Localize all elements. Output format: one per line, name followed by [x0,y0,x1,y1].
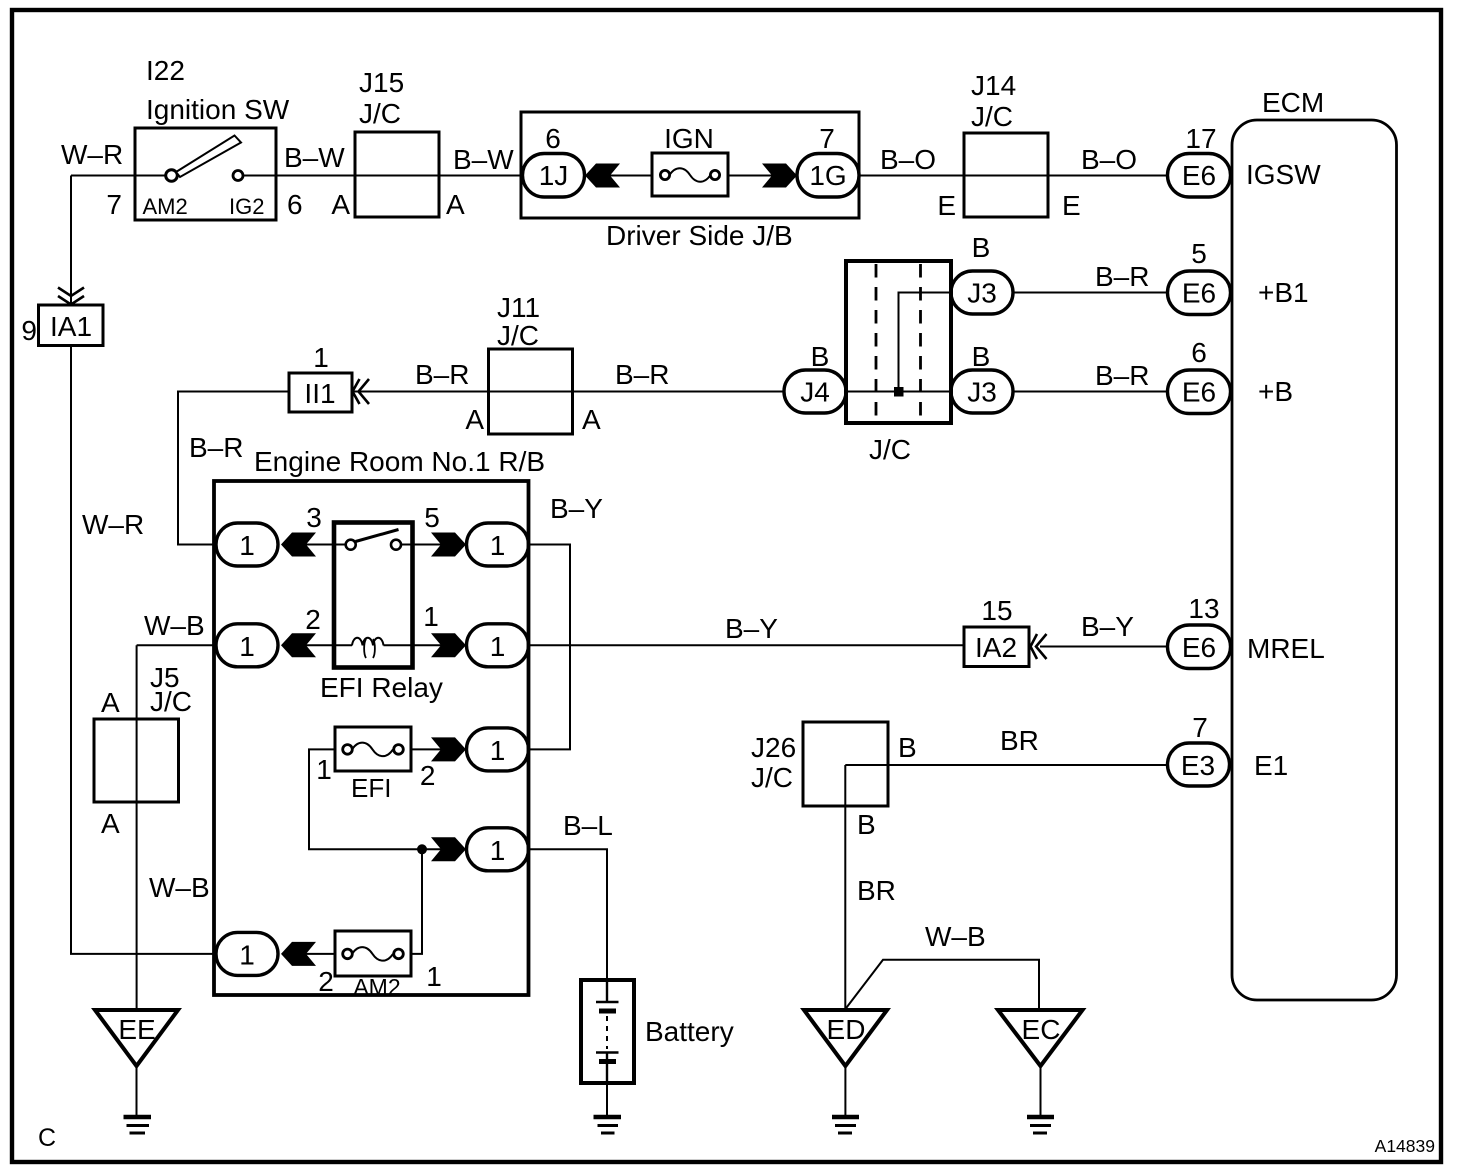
connector J4 oval [784,370,846,413]
junction node dot [417,844,427,854]
chevrons out of IA2 [1031,634,1047,659]
svg-text:W–B: W–B [149,872,210,903]
svg-text:B–Y: B–Y [1081,611,1134,642]
svg-text:IA1: IA1 [50,311,92,342]
connector E6 pin5 [1168,271,1231,315]
svg-text:BR: BR [857,875,896,906]
connector 1 oval (relay row left) [216,523,278,566]
connector E6 pin6 [1168,370,1231,414]
svg-text:6: 6 [545,123,561,154]
svg-text:2: 2 [420,760,436,791]
svg-text:+B: +B [1258,376,1293,407]
svg-text:B–R: B–R [415,359,469,390]
arrow right (pin1) [431,633,466,657]
connector 1 oval (coil row left) [216,624,278,667]
wire B-Y riser joining relay out and EFI fuse out [529,545,571,750]
connector 1J oval [523,154,585,198]
svg-text:E6: E6 [1182,278,1216,309]
wire B-Y IA2 to E6 MREL [1040,646,1168,648]
svg-text:AM2: AM2 [143,194,188,219]
svg-text:B–O: B–O [880,144,936,175]
svg-text:1: 1 [423,601,439,632]
connector E3 pin7 [1168,743,1230,786]
fuse AM2 box [335,931,411,976]
wire W-B from J5 riser to coil row [137,644,216,646]
svg-text:B–R: B–R [1095,360,1149,391]
fuse EFI element [343,745,353,755]
arrow left (AM2 pin2) [281,942,316,966]
arrow right (battery feed) [431,837,466,861]
svg-text:B–Y: B–Y [725,613,778,644]
svg-text:B–O: B–O [1081,144,1137,175]
wire relay to pin5 arrow [400,544,443,546]
svg-text:7: 7 [106,189,122,220]
connector 1 oval (coil row right) [467,624,529,667]
ground (EE) [124,1115,152,1119]
svg-text:7: 7 [1192,712,1208,743]
wire B-L to battery [529,849,608,980]
svg-text:EFI: EFI [351,773,391,803]
ground point ED triangle [804,1010,887,1066]
relay coil [334,638,412,646]
svg-text:J3: J3 [967,278,997,309]
fuse AM2 element [343,949,353,959]
arrow into 1J [585,164,620,188]
svg-text:1: 1 [490,631,506,662]
wire W-R vertical down from ignition row [70,176,72,306]
svg-text:B–R: B–R [615,359,669,390]
arrow left (pin2) [281,633,316,657]
svg-text:A: A [331,189,350,220]
arrow right (pin5) [431,533,466,557]
svg-text:3: 3 [306,502,322,533]
junction connector J5 box [94,719,179,802]
svg-text:J/C: J/C [150,686,192,717]
svg-text:J15: J15 [359,67,404,98]
connector J3 upper oval [951,271,1013,314]
svg-text:1: 1 [490,530,506,561]
chevrons out of II1 [353,379,370,404]
svg-text:6: 6 [287,189,303,220]
svg-text:A14839: A14839 [1375,1136,1435,1156]
svg-text:1: 1 [239,940,255,971]
fuse EFI box [335,727,411,771]
svg-text:1: 1 [490,835,506,866]
svg-text:BR: BR [1000,725,1039,756]
svg-text:J4: J4 [800,377,830,408]
svg-text:2: 2 [305,604,321,635]
svg-text:EE: EE [118,1014,155,1045]
wire to EE ground [136,1009,138,1011]
EFI relay box [334,523,413,668]
junction block J/C box [846,261,951,423]
svg-text:E6: E6 [1182,632,1216,663]
wire B-R J11 to J4 [572,391,784,393]
svg-text:E: E [1062,190,1081,221]
arrow left (pin3) [281,533,316,557]
wire W-R IA1 down to AM2 fuse row [71,346,216,954]
svg-text:E6: E6 [1182,377,1216,408]
svg-text:B–R: B–R [189,432,243,463]
ground (battery) [594,1115,622,1119]
svg-text:E6: E6 [1182,160,1216,191]
ground point EE triangle [95,1010,178,1066]
relay switch bar [356,530,399,542]
svg-text:J/C: J/C [971,101,1013,132]
svg-text:C: C [38,1124,56,1152]
wire B-O J14 to ECM [1048,175,1168,177]
svg-text:B–R: B–R [1095,261,1149,292]
chevrons into IA1 [58,288,84,305]
svg-text:E: E [937,190,956,221]
wire B-R from II1 to corner and down to relay row [178,392,289,545]
wire to IGN fuse [610,175,652,177]
svg-text:EC: EC [1022,1014,1061,1045]
svg-text:1: 1 [426,961,442,992]
ignition switch lever [176,136,241,178]
svg-text:AM2: AM2 [353,974,400,1000]
wire relay to pin1 arrow [412,644,443,646]
svg-text:J/C: J/C [869,434,911,465]
svg-text:IG2: IG2 [229,194,264,219]
svg-text:1J: 1J [539,160,569,191]
arrow right (pin2) [431,737,466,761]
junction connector J15 box [355,175,439,177]
svg-text:B: B [898,732,917,763]
junction connector J11 box [489,391,573,393]
internal wire to upper J3 [899,293,952,392]
svg-text:B: B [972,232,991,263]
Driver Side J/B box [521,112,859,218]
connector 1 oval (AM2 row left) [216,932,278,975]
wire B-R J3 to E6 +B [1013,391,1168,393]
connector 1G oval [797,154,859,198]
svg-text:E3: E3 [1181,750,1215,781]
svg-text:J11: J11 [497,292,540,323]
wire B-W J15 to Driver Side J/B [439,175,523,177]
svg-text:J/C: J/C [359,98,401,129]
wire W-B ED to EC [845,960,1039,1010]
wire BR J26 to E3 [845,764,1167,766]
svg-text:Engine Room No.1 R/B: Engine Room No.1 R/B [254,446,545,477]
svg-text:1: 1 [239,530,255,561]
battery box [581,980,634,1083]
svg-text:2: 2 [318,966,334,997]
svg-text:B: B [811,341,830,372]
ignition switch internal wires [135,175,276,177]
wire arrow to AM2 fuse [306,953,335,955]
wire pin3 to relay [306,544,346,546]
ground (EC) [1027,1115,1054,1119]
svg-text:A: A [101,808,120,839]
arrow into 1G [762,164,797,188]
svg-text:B–W: B–W [284,142,345,173]
wire junction to arrow [422,848,443,850]
wire B-R II1 to J11 [353,391,489,393]
svg-text:13: 13 [1188,593,1219,624]
battery cells [596,980,619,1065]
svg-text:W–R: W–R [61,139,123,170]
svg-text:J26: J26 [751,732,796,763]
svg-text:15: 15 [981,595,1012,626]
svg-text:9: 9 [21,315,37,346]
svg-text:B–W: B–W [453,144,514,175]
svg-text:EFI Relay: EFI Relay [320,672,443,703]
wire B-O 1G to J14 [859,175,964,177]
svg-text:B: B [972,341,991,372]
svg-text:Ignition SW: Ignition SW [146,94,290,125]
ignition switch contact AM2 [166,170,178,182]
svg-text:I22: I22 [146,55,185,86]
ignition switch I22 box [135,128,276,220]
ground point EC triangle [998,1010,1083,1066]
wire EFI fuse pin1 down to junction [309,749,422,849]
EE ground wire [136,1066,138,1117]
svg-text:1: 1 [490,735,506,766]
ED ground wire [844,1066,846,1117]
wire pin2 to relay [306,644,334,646]
svg-text:5: 5 [424,502,440,533]
junction node dot [894,387,904,397]
relay switch contacts [346,540,356,550]
svg-text:II1: II1 [304,378,335,409]
svg-text:J14: J14 [971,70,1016,101]
svg-text:W–B: W–B [925,921,986,952]
svg-text:W–R: W–R [82,509,144,540]
svg-text:5: 5 [1191,238,1207,269]
fuse IGN box [652,153,728,196]
ground (ED) [832,1115,859,1119]
svg-text:J/C: J/C [497,320,539,351]
svg-text:17: 17 [1185,123,1216,154]
wire B-W to J15 [276,175,355,177]
fuse IGN element [660,170,669,179]
wire fuse to pin2 arrow [411,748,443,750]
svg-text:Battery: Battery [645,1016,734,1047]
svg-text:J3: J3 [967,377,997,408]
connector 1 oval (EFI fuse out) [467,728,529,771]
svg-text:J/C: J/C [751,762,793,793]
svg-text:IGSW: IGSW [1246,159,1321,190]
svg-text:Driver Side J/B: Driver Side J/B [606,220,793,251]
svg-text:W–B: W–B [144,610,205,641]
wire AM2 fuse up to junction [411,849,422,954]
connector E6 pin13 [1168,625,1231,669]
svg-text:A: A [465,404,484,435]
svg-text:IGN: IGN [664,123,714,154]
wire IGN fuse to 1G [728,175,772,177]
svg-text:B–L: B–L [563,810,613,841]
wire W-R horizontal to ignition switch [71,175,135,177]
svg-text:1: 1 [313,342,329,373]
svg-text:IA2: IA2 [975,632,1017,663]
junction connector J26 box [803,722,888,806]
dashed internal lines [876,264,921,420]
svg-text:E1: E1 [1254,750,1288,781]
svg-text:A: A [446,189,465,220]
svg-text:B: B [857,809,876,840]
svg-text:A: A [582,404,601,435]
junction connector J14 box [964,175,1048,177]
connector 1 oval (relay row right) [467,523,529,566]
Engine Room No.1 R/B box [214,481,529,995]
connector IA2 box [964,627,1029,667]
ignition switch contact IG2 [233,171,243,181]
EC ground wire [1040,1066,1042,1117]
svg-text:A: A [101,687,120,718]
connector J3 lower oval [951,370,1013,413]
wire B-R J3 to E6 +B1 [1013,292,1168,294]
wire B-Y MREL long to IA2 [529,644,965,646]
svg-text:+B1: +B1 [1258,277,1309,308]
connector 1 oval (battery feed) [467,828,529,871]
svg-text:ECM: ECM [1262,87,1324,118]
svg-text:MREL: MREL [1247,633,1325,664]
svg-text:6: 6 [1191,337,1207,368]
svg-text:1: 1 [239,631,255,662]
svg-text:1G: 1G [809,160,846,191]
svg-text:ED: ED [827,1014,866,1045]
wire W-B riser through J5 to EE [136,645,138,1010]
internal wire +B row through block [846,391,951,393]
svg-text:B–Y: B–Y [550,493,603,524]
connector II1 box [289,373,352,412]
connector E6 pin17 [1168,154,1231,198]
wire BR J26 down to ED [844,765,846,1010]
svg-text:1: 1 [316,754,332,785]
svg-text:7: 7 [819,123,835,154]
ECM body [1232,120,1397,1000]
connector IA1 box [39,305,104,346]
battery ground wire [606,1083,608,1117]
